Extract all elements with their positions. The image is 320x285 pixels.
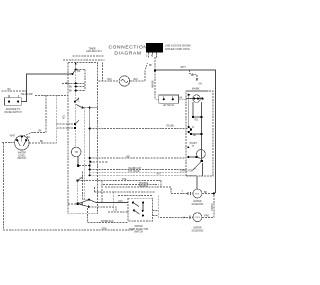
svg-text:BK: BK [77, 71, 81, 73]
svg-text:WH/BK BLK: WH/BK BLK [101, 221, 114, 223]
svg-text:GN: GN [199, 84, 203, 86]
svg-text:SOLENOID: SOLENOID [191, 230, 203, 232]
svg-text:BR: BR [66, 83, 70, 85]
svg-text:WATER: WATER [134, 225, 142, 228]
svg-text:WHT: WHT [10, 136, 16, 138]
svg-text:BU: BU [69, 87, 73, 89]
svg-text:YEL/BU: YEL/BU [166, 126, 175, 128]
svg-text:LEVEL: LEVEL [18, 155, 26, 157]
svg-text:WH/BK: WH/BK [153, 80, 155, 88]
svg-text:BU: BU [27, 137, 31, 139]
svg-text:BLK: BLK [134, 79, 139, 81]
svg-text:NAT: NAT [157, 173, 162, 176]
svg-text:BK: BK [149, 65, 153, 67]
svg-text:APPLIED CORD CONN: APPLIED CORD CONN [165, 48, 190, 51]
svg-text:YEL: YEL [64, 114, 66, 119]
svg-text:PAUSE SWITCH: PAUSE SWITCH [4, 111, 22, 114]
svg-text:SWITCH: SWITCH [134, 232, 143, 234]
svg-text:WHT: WHT [181, 67, 187, 69]
svg-text:BK: BK [180, 97, 184, 99]
svg-text:ADVANCE TO: ADVANCE TO [6, 108, 21, 111]
svg-text:SOLENOID: SOLENOID [191, 204, 203, 206]
svg-text:TM: TM [75, 152, 78, 154]
svg-text:#T1 YEL/B: #T1 YEL/B [128, 171, 140, 173]
svg-text:START: START [190, 142, 198, 145]
svg-text:ORN: ORN [102, 228, 107, 230]
svg-text:YEL: YEL [194, 120, 199, 122]
svg-text:COLD: COLD [195, 217, 201, 219]
svg-text:BU: BU [8, 89, 12, 91]
svg-text:TIMER: TIMER [88, 48, 95, 50]
svg-text:BU: BU [193, 135, 197, 137]
svg-text:BLK: BLK [108, 79, 113, 81]
svg-text:BK: BK [40, 141, 44, 143]
svg-text:BK: BK [191, 75, 195, 77]
svg-text:PR/1: PR/1 [204, 215, 210, 217]
svg-text:CONNECTION: CONNECTION [108, 45, 147, 51]
svg-text:BK: BK [69, 91, 73, 93]
svg-text:DIAGRAM: DIAGRAM [114, 51, 141, 57]
svg-text:BK: BK [204, 192, 208, 194]
svg-text:BK: BK [39, 131, 43, 133]
svg-text:YEL/BK NAT: YEL/BK NAT [128, 167, 142, 170]
svg-text:BR: BR [127, 157, 131, 159]
svg-text:SWITCH: SWITCH [17, 158, 26, 160]
svg-text:YEL/BK-BR: YEL/BK-BR [21, 94, 33, 96]
svg-text:WATER: WATER [193, 200, 201, 203]
svg-text:CAPACITOR: CAPACITOR [180, 169, 194, 172]
svg-text:WATER: WATER [18, 152, 26, 155]
svg-text:WATER: WATER [193, 227, 201, 230]
svg-text:LID SW-S1: LID SW-S1 [163, 105, 175, 107]
svg-text:GRA-MAX-ST1: GRA-MAX-ST1 [86, 50, 102, 53]
svg-text:1 BU: 1 BU [118, 201, 123, 203]
svg-text:THE: THE [122, 179, 127, 181]
svg-text:LINE VOLTAGE SHOWN: LINE VOLTAGE SHOWN [165, 45, 191, 48]
svg-text:WH/BK: WH/BK [192, 88, 200, 90]
svg-text:TEMP SELECTOR: TEMP SELECTOR [129, 229, 149, 231]
svg-text:PR/BU: PR/BU [212, 203, 214, 210]
svg-text:PURPLE: PURPLE [139, 186, 149, 188]
svg-text:PURPLE: PURPLE [139, 183, 149, 185]
